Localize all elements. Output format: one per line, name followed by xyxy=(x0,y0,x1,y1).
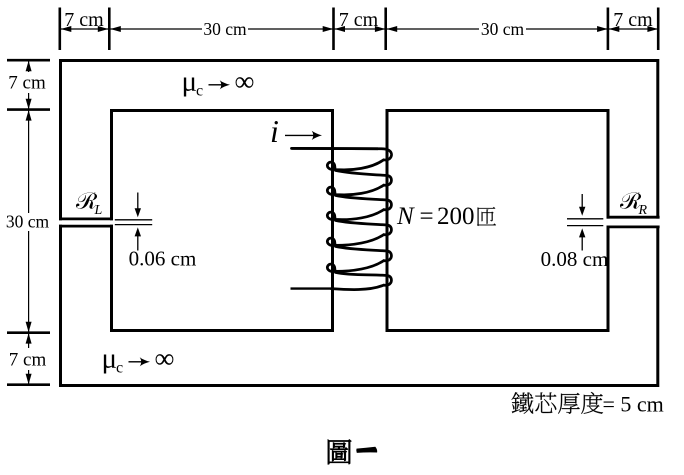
core left window xyxy=(112,111,333,331)
svg-text:0.08 cm: 0.08 cm xyxy=(541,247,609,271)
svg-text:7 cm: 7 cm xyxy=(8,73,46,94)
svg-text:c: c xyxy=(196,83,203,100)
dimension top 30 cm (left) xyxy=(110,26,333,32)
air gap right leg xyxy=(606,217,660,227)
svg-text:7 cm: 7 cm xyxy=(64,9,104,31)
core outer outline xyxy=(61,61,658,386)
caption figure 1 xyxy=(328,440,377,465)
dimension left 30 cm xyxy=(26,110,32,332)
left gap pointer arrows xyxy=(135,193,141,251)
svg-text:∞: ∞ xyxy=(155,344,175,375)
svg-text:0.06 cm: 0.06 cm xyxy=(129,247,197,271)
svg-text:30 cm: 30 cm xyxy=(203,19,247,39)
label mu_c -> infinity (top yoke) xyxy=(182,66,255,100)
svg-text:7 cm: 7 cm xyxy=(9,350,47,371)
dimension top 7 cm (center) xyxy=(334,26,385,32)
svg-text:30 cm: 30 cm xyxy=(481,19,525,39)
wire top lead xyxy=(292,147,379,150)
dimension top 7 cm (left) xyxy=(61,26,109,32)
svg-text:=: = xyxy=(420,203,434,230)
left gap face lines xyxy=(115,220,152,225)
right gap face lines xyxy=(567,219,603,226)
air gap left leg xyxy=(58,219,116,226)
core right window xyxy=(387,111,608,331)
svg-text:∞: ∞ xyxy=(235,67,255,98)
label mu_c -> infinity (bottom yoke) xyxy=(102,343,175,377)
svg-text:= 5 cm: = 5 cm xyxy=(603,392,664,417)
svg-text:μ: μ xyxy=(182,66,198,98)
svg-text:30 cm: 30 cm xyxy=(6,212,50,232)
svg-text:c: c xyxy=(116,360,123,377)
label core thickness = 5 cm xyxy=(512,392,664,417)
current arrow xyxy=(285,131,322,140)
label reluctance RR xyxy=(620,192,648,218)
svg-text:7 cm: 7 cm xyxy=(339,9,379,31)
right gap pointer arrows xyxy=(579,194,585,251)
svg-text:7 cm: 7 cm xyxy=(613,9,653,31)
wire bottom lead xyxy=(291,287,331,289)
dimension left 7 cm (top) xyxy=(26,61,32,109)
svg-text:R: R xyxy=(638,203,648,218)
label reluctance RL xyxy=(76,192,103,218)
svg-text:N: N xyxy=(396,203,415,230)
coil winding N=200 turns xyxy=(292,148,392,289)
dimension top 30 cm (right) xyxy=(386,26,607,32)
svg-text:μ: μ xyxy=(102,343,118,375)
top dimension extension ticks xyxy=(60,8,658,51)
svg-text:L: L xyxy=(94,203,103,218)
dimension left 7 cm (bottom) xyxy=(26,333,32,384)
label N = 200 turns xyxy=(396,203,496,230)
svg-text:200: 200 xyxy=(437,203,475,230)
dimension top 7 cm (right) xyxy=(609,26,658,32)
left dimension extension ticks xyxy=(7,60,50,385)
svg-text:i: i xyxy=(270,113,279,149)
